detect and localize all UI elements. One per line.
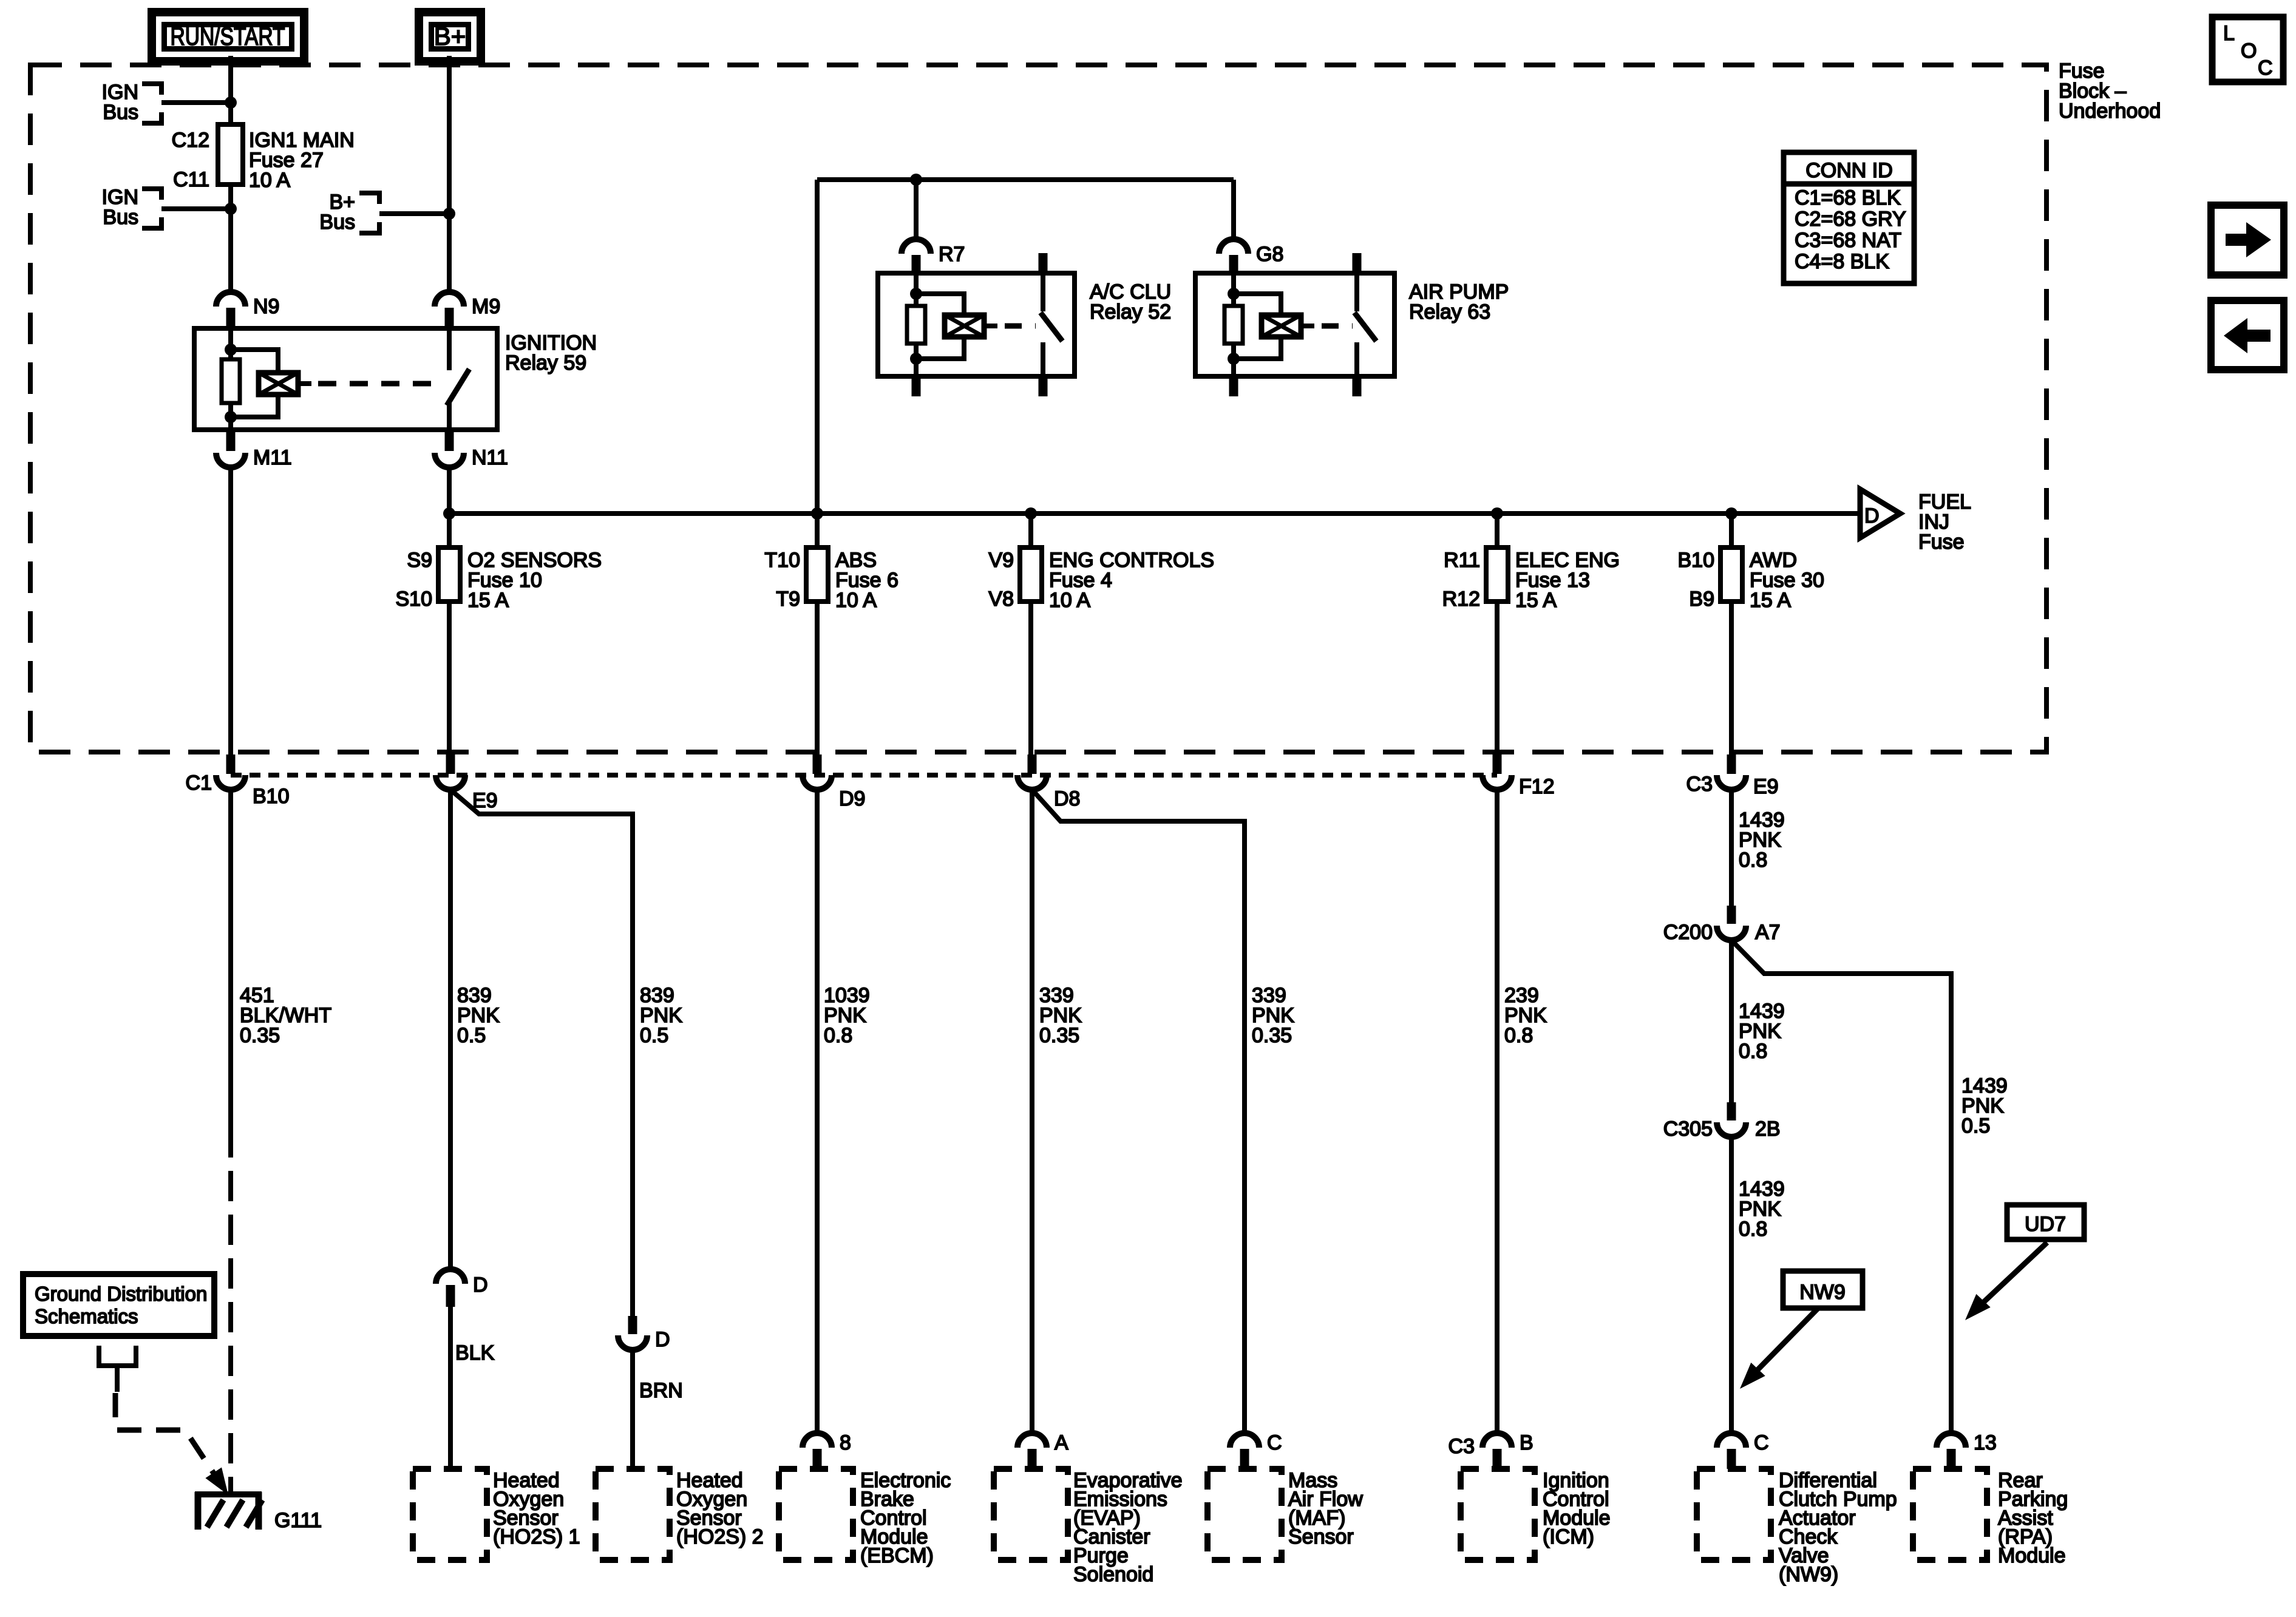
component ICM box [1461,1469,1535,1560]
svg-text:Underhood: Underhood [2059,100,2161,123]
LOC symbol [2212,17,2283,82]
svg-text:0.35: 0.35 [1039,1024,1079,1047]
relay K52 switch [1041,273,1045,311]
svg-text:(EBCM): (EBCM) [860,1544,934,1567]
relay K63 coil [1262,315,1301,337]
wire 1039 PNK to EBCM [815,790,820,1433]
svg-text:C2=68 GRY: C2=68 GRY [1795,208,1906,231]
component MAF box [1207,1469,1282,1560]
svg-text:C4=8 BLK: C4=8 BLK [1795,250,1889,273]
svg-text:0.35: 0.35 [1252,1024,1292,1047]
svg-text:0.8: 0.8 [1739,1218,1767,1241]
fuse block dashed border [30,65,2046,752]
wire B+ feed [447,56,452,292]
svg-text:2B: 2B [1755,1117,1781,1141]
relay K52 armature link [984,324,997,328]
svg-text:C200: C200 [1663,921,1713,944]
svg-text:15 A: 15 A [467,589,509,612]
svg-text:D9: D9 [839,787,865,810]
wire 1439 PNK segment 2 [1729,940,1734,1102]
arrow symbol pointing left [2211,300,2284,370]
svg-text:15 A: 15 A [1515,589,1557,612]
arrow symbol pointing right [2211,205,2284,275]
svg-text:10 A: 10 A [835,589,877,612]
svg-text:M9: M9 [472,295,500,318]
wire relay feed [817,180,1234,547]
junction [225,203,237,215]
connector D (HO2S1) [436,1269,465,1284]
relay K59 armature link [298,381,311,386]
svg-text:0.8: 0.8 [1504,1024,1533,1047]
relay K59 IGNITION Relay 59 [194,328,497,430]
svg-text:B10: B10 [1678,549,1715,572]
component RPA box [1913,1469,1987,1560]
svg-text:(HO2S) 2: (HO2S) 2 [676,1525,764,1548]
ground reference bracket [99,1346,136,1366]
svg-text:E9: E9 [1753,775,1779,798]
svg-text:10 A: 10 A [249,169,290,192]
connector F12 [1493,754,1502,774]
svg-text:0.8: 0.8 [824,1024,852,1047]
svg-text:D: D [655,1328,670,1351]
svg-text:C3: C3 [1449,1435,1475,1458]
svg-text:CONN ID: CONN ID [1805,159,1893,182]
svg-text:C11: C11 [173,168,209,191]
connector N11 [445,430,454,451]
resistor in relay K59 [222,359,240,403]
connector D9 [813,754,822,774]
svg-text:S9: S9 [407,549,432,572]
inline connector C200 A7 [1727,906,1736,924]
relay K59 switch [447,328,452,370]
fuel injection fuse feed arrow D [1860,489,1900,538]
ground G111 [195,1491,262,1497]
connector N9 [216,292,245,307]
callout UD7 [2007,1205,2084,1239]
connector C3 B (ICM) [1483,1433,1512,1448]
svg-text:NW9: NW9 [1799,1281,1846,1304]
svg-text:A: A [1055,1431,1068,1454]
svg-text:G8: G8 [1256,243,1283,266]
relay K59 coil [259,373,298,395]
connector M11 [226,430,236,451]
svg-text:15 A: 15 A [1750,589,1791,612]
junction [811,507,823,520]
svg-text:Relay 63: Relay 63 [1409,300,1490,324]
connector M9 [435,292,464,307]
connector 8 (EBCM) [803,1433,832,1448]
relay K63 switch [1354,273,1359,311]
svg-text:D: D [473,1273,488,1297]
CONN ID table [1784,152,1914,283]
svg-text:C1=68 BLK: C1=68 BLK [1795,186,1901,209]
svg-text:V9: V9 [988,549,1014,572]
svg-text:G111: G111 [274,1509,322,1532]
wire M11 to C1 [228,467,233,756]
svg-text:C305: C305 [1663,1117,1713,1141]
wire 451 BLK/WHT [228,790,233,1127]
wire 339 PNK to EVAP [1030,790,1034,1433]
wire N11 to ignition bus [447,467,452,514]
svg-text:BRN: BRN [639,1379,683,1402]
svg-text:0.5: 0.5 [1961,1114,1990,1137]
component HO2S2 box [596,1469,670,1560]
svg-text:Module: Module [1998,1544,2066,1567]
svg-text:C: C [2258,56,2273,80]
relay K52 pins [1039,253,1048,273]
junction [1491,507,1503,520]
fuse F6 ABS 10A [806,547,828,602]
svg-text:10 A: 10 A [1049,589,1090,612]
wire 839 PNK branch to HO2S2 [450,790,633,1317]
svg-text:Relay 52: Relay 52 [1090,300,1171,324]
svg-text:Fuse: Fuse [1918,531,1965,554]
power feed box RUN/START [152,12,304,61]
wire 239 PNK to ICM [1495,790,1500,1433]
connector A (EVAP) [1017,1433,1047,1448]
svg-text:C1: C1 [186,771,212,795]
svg-text:T10: T10 [764,549,800,572]
svg-text:C: C [1267,1431,1282,1454]
svg-text:T9: T9 [776,588,800,611]
svg-text:8: 8 [840,1431,851,1454]
svg-text:A7: A7 [1755,921,1781,944]
svg-text:M11: M11 [253,446,292,469]
connector D (HO2S2) [628,1316,637,1334]
junction [1725,507,1737,520]
wire to G8 [1231,180,1236,239]
svg-text:BLK: BLK [455,1341,495,1364]
relay K63 armature link [1301,324,1314,328]
connector row dotted line C1 [231,773,1497,778]
connector G8 [1219,239,1248,254]
svg-text:0.5: 0.5 [640,1024,668,1047]
wire to R7 [914,180,919,239]
svg-text:L: L [2223,22,2235,45]
svg-text:F12: F12 [1519,775,1555,798]
wire 1439 PNK branch to RPA [1731,940,1951,1433]
connector 13 (RPA) [1937,1433,1966,1448]
connector C1 B10 [226,754,236,774]
svg-text:B: B [1520,1431,1533,1454]
svg-text:RUN/START: RUN/START [170,23,285,51]
connector C (NW9 valve) [1717,1433,1746,1448]
svg-text:D: D [1864,504,1880,527]
svg-text:V8: V8 [988,588,1014,611]
wire BRN to HO2S2 [630,1350,635,1469]
junction [910,174,922,186]
wire RUN/START feed [228,56,233,292]
svg-text:Solenoid: Solenoid [1073,1563,1153,1586]
ground reference dashed arrow [115,1393,223,1487]
fuse F4 ENG CONTROLS 10A [1028,514,1033,547]
svg-text:B10: B10 [253,785,290,808]
connector C (MAF) [1230,1433,1259,1448]
svg-text:C: C [1754,1431,1769,1454]
resistor in relay K63 [1224,306,1243,344]
svg-text:UD7: UD7 [2025,1213,2066,1236]
junction [443,208,455,220]
component HO2S1 box [413,1469,487,1560]
svg-text:13: 13 [1974,1431,1997,1454]
svg-text:R12: R12 [1442,588,1480,611]
callout NW9 [1783,1271,1863,1308]
wire ignition bus [449,511,1860,516]
connector D8 [1028,754,1037,774]
svg-text:Bus: Bus [103,206,138,229]
fuse F30 AWD 15A [1729,514,1734,547]
inline connector C305 2B [1727,1102,1736,1120]
resistor in relay K52 [907,306,925,344]
fuse F13 ELEC ENG 15A [1495,514,1500,547]
connector E9 (fuse block) [446,754,455,774]
svg-text:Relay 59: Relay 59 [505,351,586,375]
svg-text:(NW9): (NW9) [1779,1563,1838,1586]
power feed box B+ [419,12,481,61]
component EVAP box [994,1469,1068,1560]
svg-text:O: O [2241,39,2257,63]
svg-text:N9: N9 [253,295,279,318]
fuse F10 O2 SENSORS 15A [447,514,452,547]
wire 1439 PNK segment 3 [1729,1137,1734,1433]
svg-text:Sensor: Sensor [1288,1525,1354,1548]
svg-text:B9: B9 [1689,588,1714,611]
svg-text:(ICM): (ICM) [1543,1525,1594,1548]
svg-text:C3=68 NAT: C3=68 NAT [1795,229,1901,252]
svg-text:C12: C12 [172,129,209,152]
svg-text:(HO2S) 1: (HO2S) 1 [493,1525,580,1548]
relay K63 AIR PUMP Relay 63 [1195,273,1394,376]
wire 339 PNK branch to MAF [1032,790,1245,1433]
wire 1439 PNK segment 1 [1729,790,1734,906]
wire 839 PNK to HO2S1 [448,790,453,1269]
svg-text:R7: R7 [939,243,965,266]
svg-text:S10: S10 [396,588,433,611]
relay K63 pins [1353,253,1362,273]
svg-text:0.5: 0.5 [457,1024,486,1047]
svg-text:Bus: Bus [319,211,355,234]
junction [225,97,237,109]
svg-text:Bus: Bus [103,101,138,124]
connector R7 [902,239,931,254]
connector C3 E9 [1727,754,1736,774]
svg-text:Schematics: Schematics [35,1305,138,1327]
svg-text:N11: N11 [472,446,508,469]
relay K52 coil [945,315,984,337]
relay K52 A/C CLU Relay 52 [878,273,1075,376]
svg-text:R11: R11 [1444,549,1480,572]
junction [1025,507,1037,520]
svg-text:0.35: 0.35 [240,1024,280,1047]
component Differential Clutch Pump box [1697,1469,1771,1560]
svg-text:B+: B+ [434,22,466,50]
svg-text:C3: C3 [1686,773,1713,796]
svg-text:Ground Distribution: Ground Distribution [35,1283,207,1305]
wire BLK to HO2S1 [448,1307,453,1469]
junction [443,507,455,520]
component EBCM box [779,1469,853,1560]
ground reference box Ground Distribution Schematics [23,1274,214,1336]
svg-text:D8: D8 [1054,787,1080,810]
svg-text:0.8: 0.8 [1739,1040,1767,1063]
svg-text:0.8: 0.8 [1739,849,1767,872]
